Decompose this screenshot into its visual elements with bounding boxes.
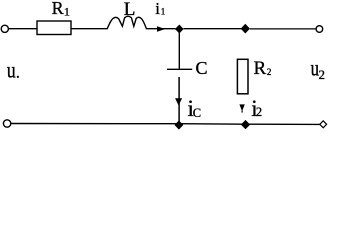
current arrow i1 (157, 26, 165, 32)
terminal top-right (316, 26, 323, 33)
svg-text:u: u (7, 58, 16, 83)
terminal bottom-right (320, 121, 327, 128)
wire R1 to L (71, 28, 107, 30)
current arrow iC (175, 98, 182, 105)
svg-text:i: i (155, 0, 160, 18)
current arrow i2 (239, 104, 244, 111)
terminal bottom-left (3, 120, 10, 127)
node B junction dot (241, 24, 250, 34)
svg-text:R: R (52, 0, 64, 18)
terminal top-left (1, 25, 8, 32)
capacitor C upper lead (178, 33, 180, 69)
capacitor C plate (167, 68, 192, 70)
svg-text:2: 2 (319, 67, 326, 82)
svg-text:L: L (124, 0, 136, 20)
node C junction dot (bottom, under capacitor) (175, 120, 184, 129)
bottom wire (11, 123, 320, 126)
node D junction dot (bottom, under R2) (241, 120, 250, 129)
svg-text:R: R (254, 58, 267, 79)
svg-text:2: 2 (267, 67, 272, 77)
wire node B to terminal top-right (250, 28, 317, 30)
inductor L (107, 16, 147, 29)
resistor R1 (37, 21, 71, 35)
wire top-left to R1 (9, 28, 37, 30)
wire L to node A with current arrow i1 (147, 28, 176, 30)
svg-text:2: 2 (256, 105, 262, 119)
svg-text:C: C (193, 106, 201, 120)
svg-text:C: C (196, 58, 208, 78)
node A junction dot (175, 25, 184, 34)
svg-text:1: 1 (64, 5, 70, 19)
resistor R2 (237, 59, 248, 94)
svg-text:1: 1 (161, 7, 166, 17)
wire node A to node B (184, 28, 242, 30)
capacitor C lower lead (178, 77, 180, 122)
